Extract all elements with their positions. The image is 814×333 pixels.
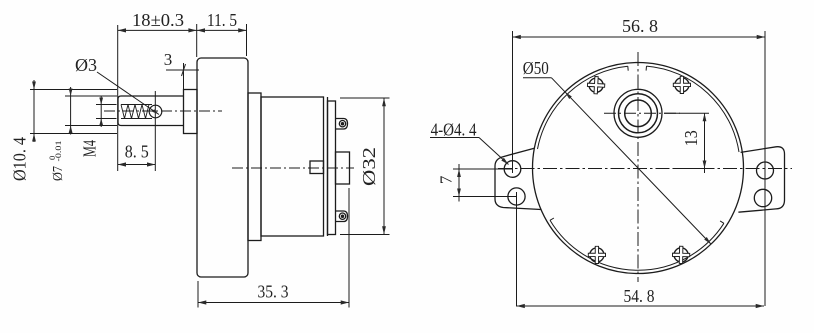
svg-text:4-Ø4. 4: 4-Ø4. 4 [431, 120, 477, 140]
leader Ø3 [97, 72, 159, 115]
4-Ø4.4 arrow [501, 158, 508, 165]
dim 56.8 [513, 36, 766, 38]
dim 3 [166, 69, 199, 71]
dim 8.5 [118, 164, 156, 166]
vertical centerline [637, 52, 639, 282]
M4 thread zigzag [121, 105, 149, 119]
7 arrows [457, 169, 461, 177]
8.5 arrows [118, 162, 126, 166]
13 arrows [703, 113, 707, 121]
dim Ø32 [383, 98, 385, 235]
svg-text:13: 13 [681, 130, 701, 146]
shaft bore [625, 100, 652, 127]
main circle Ø50 face [533, 63, 744, 274]
svg-text:7: 7 [437, 175, 456, 184]
extension line gearbox left [196, 24, 198, 57]
motor body [261, 97, 324, 236]
Ø7 arrows [69, 89, 73, 97]
bearing boss [310, 161, 324, 174]
svg-text:54. 8: 54. 8 [624, 286, 655, 306]
boss horizontal centerline [604, 112, 680, 114]
18 dim arrows [118, 28, 126, 32]
svg-text:56. 8: 56. 8 [622, 16, 658, 36]
left ear hole top [504, 161, 521, 178]
dim 18+-0.3 line [30, 24, 390, 308]
54.8 arrows [517, 304, 525, 308]
dim 54.8 [517, 305, 765, 307]
4-Ø4.4 leader underline [430, 137, 479, 139]
boss Ø10.4 [184, 90, 198, 134]
35.3 arrows [198, 300, 206, 304]
svg-text:-0.01: -0.01 [53, 141, 63, 162]
Ø50 leader underline [523, 77, 552, 79]
svg-text:Ø32: Ø32 [359, 147, 379, 186]
svg-text:18±0.3: 18±0.3 [132, 10, 184, 30]
screw lug top [336, 119, 348, 130]
right ear hole top [757, 162, 774, 179]
arrowheads [32, 28, 765, 308]
4-Ø4.4 leader [479, 138, 509, 165]
left ear hole bottom [508, 188, 525, 205]
dim 7 [458, 164, 460, 202]
svg-text:8. 5: 8. 5 [125, 142, 149, 162]
gearbox screw [673, 76, 690, 93]
motor flange [248, 93, 261, 241]
svg-text:35. 3: 35. 3 [258, 282, 289, 302]
dim M4 [100, 97, 102, 128]
11.5 dim arrows [197, 28, 205, 32]
gearbox screw [587, 76, 605, 94]
gearbox screw [672, 246, 689, 263]
bushing outer [619, 94, 658, 133]
shaft boss outer [614, 89, 662, 137]
extension line gearbox right [246, 24, 248, 56]
Ø32 arrows [382, 98, 386, 106]
svg-text:Ø10. 4: Ø10. 4 [10, 137, 30, 181]
svg-text:3: 3 [164, 50, 173, 69]
svg-text:Ø7: Ø7 [51, 166, 66, 181]
Ø3 leader arrow [152, 109, 159, 114]
motor axis centerline [232, 167, 354, 169]
right ear hole bottom [754, 189, 771, 206]
56.8 arrows [513, 35, 521, 39]
gearbox screw [588, 246, 605, 263]
output shaft Ø7 [118, 96, 184, 126]
Ø10.4 arrows [32, 82, 36, 90]
screw top [339, 121, 345, 127]
label Ø7 with tolerance rotated [47, 141, 66, 182]
motor endbell [328, 101, 336, 235]
arc end ticks [627, 66, 629, 71]
shaft centerline [104, 110, 222, 112]
dim 13 [704, 113, 706, 173]
svg-text:Ø3: Ø3 [75, 55, 97, 75]
Ø50 diameter line [552, 78, 712, 244]
extension line shaft tip / 8.5 [117, 25, 119, 171]
inner arc top-right [647, 66, 740, 152]
gearbox body [197, 58, 248, 277]
svg-text:11. 5: 11. 5 [207, 10, 237, 30]
M4 thread line bottom [121, 118, 152, 120]
svg-text:M4: M4 [80, 140, 100, 157]
inner arc bottom [550, 220, 724, 270]
screw bottom [339, 213, 345, 219]
dim 35.3 [198, 302, 349, 304]
cross hole Ø3 [149, 105, 162, 118]
dim Ø7 [70, 87, 72, 135]
M4 thread line top [121, 104, 152, 106]
Ø50 arrows [565, 92, 572, 99]
inner arc upper-left [538, 66, 628, 149]
screw lug bottom [336, 211, 348, 222]
dim 3 tick [182, 64, 186, 76]
right ear [738, 147, 784, 213]
terminal block [336, 152, 350, 184]
horizontal centerline [498, 168, 792, 170]
svg-text:Ø50: Ø50 [523, 58, 549, 78]
motor end cap seam [327, 97, 329, 236]
dim Ø10.4 [33, 80, 35, 142]
M4 arrows [99, 98, 103, 105]
left ear [495, 148, 541, 209]
